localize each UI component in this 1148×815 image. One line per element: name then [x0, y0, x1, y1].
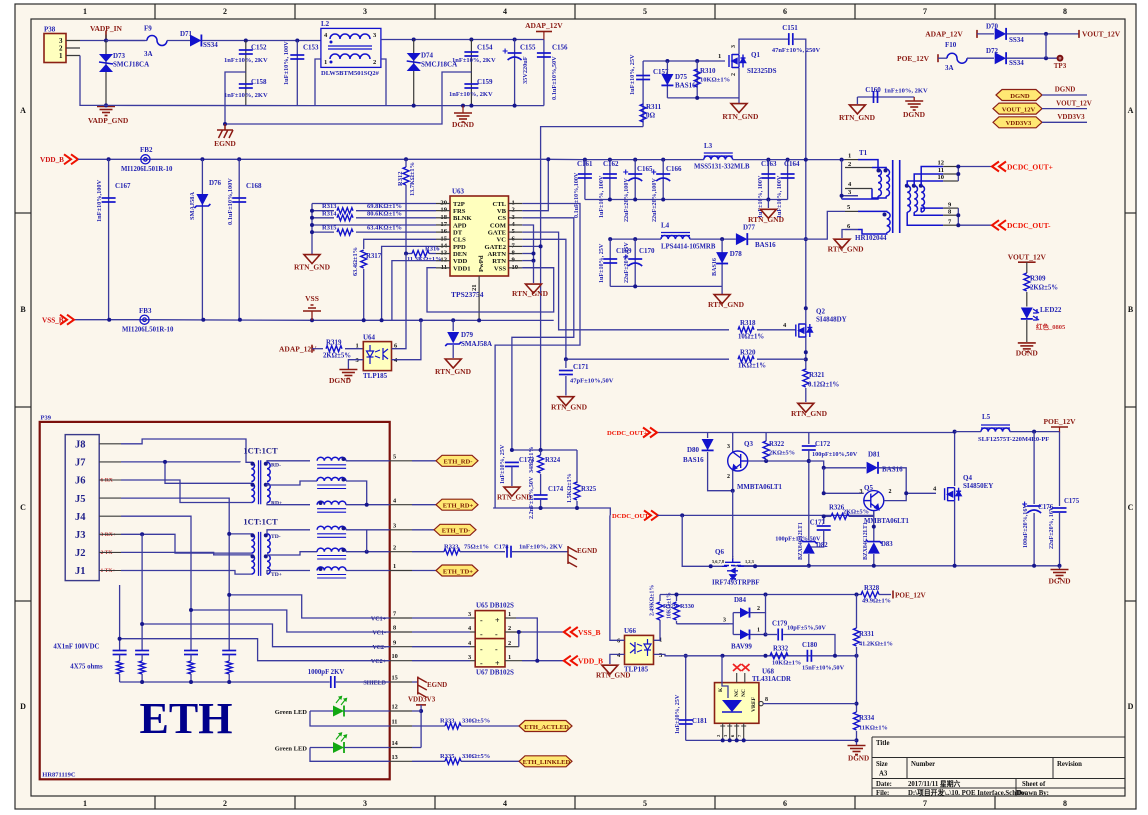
ground RTN_GND C173 [504, 487, 520, 496]
svg-text:FB2: FB2 [140, 146, 153, 154]
svg-text:D70: D70 [986, 23, 999, 31]
svg-text:+: + [495, 659, 500, 668]
svg-text:1uF±10%, 25V: 1uF±10%, 25V [599, 243, 605, 283]
U64 internals [367, 345, 389, 364]
wire TD mid [267, 552, 317, 555]
wire column x119 down [119, 585, 121, 651]
IC U63 TPS23754 [450, 196, 509, 276]
svg-text:ETH: ETH [140, 694, 233, 743]
svg-text:C168: C168 [246, 182, 262, 190]
wire U66 pin3 mid rail [654, 654, 857, 655]
wire R330 to D84 pin3 [677, 623, 730, 625]
ground DGND U64 [339, 370, 357, 379]
svg-text:VDD_B: VDD_B [40, 156, 64, 164]
sheet port VOUT_12V [993, 103, 1042, 114]
svg-text:MI1206L501R-10: MI1206L501R-10 [121, 166, 173, 173]
svg-text:0.1uF±10%,50V: 0.1uF±10%,50V [551, 56, 558, 100]
svg-text:R328: R328 [864, 585, 880, 592]
svg-text:C159: C159 [477, 78, 493, 86]
svg-text:3: 3 [731, 45, 737, 48]
wire LED1 loop [310, 711, 390, 726]
resistor R317 [361, 250, 367, 268]
svg-text:DGND: DGND [1010, 93, 1030, 100]
wire Q5 base loop [824, 468, 864, 494]
svg-text:R331: R331 [859, 631, 875, 638]
ground EGND shield pin [412, 681, 418, 683]
resistor R315 [312, 231, 334, 233]
svg-text:SS34: SS34 [1009, 36, 1024, 44]
svg-text:R319: R319 [326, 339, 342, 347]
svg-text:1: 1 [59, 52, 63, 60]
ground RTN_GND R321 [798, 403, 814, 412]
resistor R319 [312, 348, 323, 350]
svg-text:Q6: Q6 [715, 548, 724, 556]
svg-text:10: 10 [938, 174, 945, 181]
diode D70 [995, 28, 1006, 40]
svg-text:T1: T1 [859, 149, 868, 157]
svg-text:R314: R314 [322, 211, 337, 218]
diode D75 [666, 61, 668, 98]
svg-text:U68: U68 [762, 668, 775, 676]
resistor R309 [1024, 273, 1030, 291]
wire VC2- [142, 624, 390, 647]
svg-text:10KΩ±1%: 10KΩ±1% [700, 77, 730, 84]
svg-text:3: 3 [363, 799, 367, 808]
U65 left stubs [470, 618, 475, 661]
svg-text:C152: C152 [251, 44, 267, 52]
svg-text:C158: C158 [251, 78, 267, 86]
svg-text:6: 6 [783, 799, 787, 808]
wire U65 pin1 to VDD_B [516, 618, 537, 661]
svg-text:1: 1 [83, 799, 87, 808]
ground DGND bottom right [856, 740, 858, 745]
wire P38 pin1 to gnd rail [80, 56, 106, 106]
svg-text:C177: C177 [810, 520, 826, 527]
wire COM down [522, 225, 533, 261]
U68 internals [718, 687, 757, 712]
capacitor C163 [767, 160, 769, 200]
svg-text:1,2,3: 1,2,3 [745, 559, 755, 564]
resistor R335 [412, 760, 445, 762]
wire RTN [522, 260, 533, 262]
svg-text:2: 2 [889, 489, 892, 495]
svg-text:10Ω±1%: 10Ω±1% [738, 334, 764, 341]
wire VDD3V3 column [420, 705, 422, 748]
svg-text:J6: J6 [75, 476, 86, 487]
svg-text:MMBTA06LT1: MMBTA06LT1 [737, 484, 783, 491]
svg-text:1: 1 [508, 611, 511, 618]
wire column x229 down [228, 534, 230, 651]
svg-text:R323: R323 [444, 544, 459, 551]
svg-text:3: 3 [723, 617, 726, 623]
capacitor C173 [505, 462, 519, 466]
wire L2 pin1 to bottom rail [315, 59, 321, 106]
wire EGND net mid caps [225, 72, 246, 124]
resistor R313 [312, 210, 334, 212]
svg-text:VOUT_12V: VOUT_12V [1008, 253, 1047, 262]
svg-text:ETH_TD-: ETH_TD- [442, 528, 471, 535]
svg-text:35V220uF: 35V220uF [522, 56, 529, 84]
polarized capacitor C165 [634, 160, 636, 200]
wire Q5 emitter down [873, 511, 875, 540]
svg-text:-: - [480, 659, 483, 668]
svg-text:1nF±10%, 2KV: 1nF±10%, 2KV [224, 57, 268, 64]
svg-text:7: 7 [923, 799, 927, 808]
svg-text:0.1uF±10%,100V: 0.1uF±10%,100V [227, 178, 234, 225]
power port VOUT_12V right [1078, 30, 1080, 38]
port ETH_LINKLED [519, 756, 572, 767]
svg-text:1nF±10%, 2KV: 1nF±10%, 2KV [519, 544, 563, 551]
zener diode D76 [201, 159, 203, 319]
wire U64 pin3 to DGND [348, 360, 363, 369]
svg-text:4: 4 [503, 7, 507, 16]
svg-text:VDD3V3: VDD3V3 [1006, 120, 1032, 127]
svg-text:BZX84C12LT1: BZX84C12LT1 [863, 522, 869, 560]
svg-text:C153: C153 [303, 44, 319, 52]
svg-text:B: B [20, 305, 26, 314]
svg-text:C162: C162 [603, 160, 619, 168]
wire J7 to RD- mid [121, 461, 240, 463]
svg-text:1uF±10%, 100V: 1uF±10%, 100V [283, 41, 290, 85]
wire VDD_B rail [78, 158, 548, 160]
svg-text:PPD: PPD [453, 244, 466, 251]
svg-text:R335: R335 [440, 753, 455, 760]
wire C172 down to D82 [808, 450, 810, 540]
svg-text:D71: D71 [180, 30, 193, 38]
wire DCDC_OUT- rail [657, 514, 874, 516]
wire Q2 source chain [805, 337, 807, 370]
svg-text:R311: R311 [646, 103, 662, 111]
svg-text:3: 3 [860, 489, 863, 495]
svg-text:14: 14 [392, 740, 399, 747]
ETH right pin stubs rows 5 4 3 2 1 [390, 461, 412, 571]
svg-text:Number: Number [911, 761, 935, 768]
svg-text:Sheet of: Sheet of [1022, 781, 1046, 788]
wire R330 bottom [676, 621, 678, 624]
svg-text:RTN: RTN [492, 258, 506, 265]
wire pin7 to U65 [412, 617, 470, 619]
wire C151 to Q2 drain long vertical [794, 39, 806, 308]
common mode choke L2 [321, 28, 381, 67]
svg-text:1: 1 [718, 53, 721, 60]
svg-text:2 TX-: 2 TX- [101, 550, 115, 556]
svg-text:D81: D81 [868, 451, 881, 459]
wire U67 pin2 up [518, 632, 520, 647]
capacitor C169 [609, 239, 611, 286]
svg-text:Title: Title [876, 740, 889, 747]
wire U66 pin1 to R329 [654, 620, 661, 640]
svg-text:VDD3V3: VDD3V3 [408, 696, 436, 704]
connector P38 [44, 34, 66, 63]
svg-text:C156: C156 [552, 44, 568, 52]
svg-text:SS34: SS34 [1009, 59, 1024, 67]
wire R323 to C178 [460, 551, 505, 553]
wire ADAP to D70 [977, 33, 994, 35]
wire J6 to RD+ [121, 480, 251, 503]
svg-text:FRS: FRS [453, 208, 466, 215]
svg-text:RTN_GND: RTN_GND [791, 409, 828, 418]
svg-text:15: 15 [392, 675, 398, 682]
polarized capacitor C155 [514, 40, 516, 106]
T1 pin stubs left [845, 160, 872, 230]
svg-text:8: 8 [1063, 799, 1067, 808]
wire L3 to T1 [690, 159, 704, 161]
svg-text:BAS16: BAS16 [683, 456, 704, 464]
port ETH_RD- [436, 455, 478, 466]
svg-text:D: D [20, 702, 26, 711]
wire J4 down column [121, 516, 191, 650]
svg-text:LED22: LED22 [1040, 306, 1062, 314]
svg-text:7: 7 [923, 7, 927, 16]
svg-text:0.1uF±10%,100V: 0.1uF±10%,100V [574, 172, 580, 218]
svg-text:GATE2: GATE2 [485, 244, 507, 251]
wire feedback top rail [660, 594, 862, 596]
svg-text:R322: R322 [769, 441, 785, 448]
svg-text:63.4Ω±1%: 63.4Ω±1% [352, 247, 359, 276]
svg-text:R316: R316 [425, 246, 440, 253]
MOSFET Q4 SI4850EY [945, 487, 962, 501]
capacitor C178 [507, 546, 511, 558]
svg-text:A: A [20, 106, 26, 115]
svg-text:HR871119C: HR871119C [42, 772, 76, 779]
wire D72 to TP3 [1007, 57, 1057, 59]
svg-text:3 RX+: 3 RX+ [101, 532, 116, 538]
wire secondary bottom to DCDC_OUT- [958, 208, 992, 225]
svg-text:R334: R334 [859, 715, 875, 722]
svg-text:2: 2 [508, 625, 511, 632]
svg-text:1nF±10%, 2KV: 1nF±10%, 2KV [224, 92, 268, 99]
svg-text:ETH_RD-: ETH_RD- [444, 459, 473, 466]
ETH transformer TD-/TD+ [251, 534, 254, 553]
wire C177 to D82 node [809, 530, 824, 547]
svg-text:11: 11 [392, 719, 398, 726]
svg-text:15nF±10%,50V: 15nF±10%,50V [802, 665, 845, 672]
svg-text:1.5KΩ±1%: 1.5KΩ±1% [567, 473, 573, 503]
wire APD pin17 [312, 224, 436, 226]
resistor R329 [657, 602, 663, 620]
resistor 75ohm column [139, 661, 145, 674]
port DCDC_OUT- right [992, 220, 1006, 230]
resistor R332 [770, 653, 788, 659]
svg-text:J5: J5 [75, 494, 86, 505]
T1 right pin stubs [943, 167, 958, 226]
resistor R323 series TD [412, 551, 444, 553]
svg-text:File:: File: [876, 790, 889, 797]
capacitor C152 [245, 41, 247, 73]
TVS diode D74 [413, 40, 415, 106]
svg-text:1CT:1CT: 1CT:1CT [243, 517, 278, 527]
ground RTN_GND L4 row [721, 286, 723, 294]
svg-text:L2: L2 [321, 20, 330, 28]
T1 primary winding lower [858, 210, 887, 213]
svg-text:VREF: VREF [751, 696, 757, 712]
svg-text:EGND: EGND [427, 681, 447, 689]
svg-text:R313: R313 [322, 203, 337, 210]
svg-text:DCDC_OUT-: DCDC_OUT- [1007, 221, 1051, 230]
svg-text:DCDC_OUT+: DCDC_OUT+ [1007, 163, 1053, 172]
wire D83 down [873, 554, 875, 566]
svg-text:2KΩ±5%: 2KΩ±5% [843, 509, 869, 516]
svg-text:12: 12 [938, 160, 945, 167]
MOSFET Q6 IRF7493TRPBF [722, 558, 744, 579]
svg-text:VOUT_12V: VOUT_12V [1082, 30, 1121, 39]
wire VSS bus [74, 319, 554, 322]
svg-text:4X75 ohms: 4X75 ohms [70, 664, 103, 671]
svg-text:11: 11 [938, 167, 944, 174]
svg-text:VDD3V3: VDD3V3 [1057, 113, 1085, 121]
wire J1 to TD+ [121, 571, 251, 575]
svg-text:R312: R312 [397, 172, 404, 186]
port VSS_B mid [564, 627, 578, 637]
wire J7 branch to RD- bot [165, 462, 251, 483]
svg-text:RTN_GND: RTN_GND [828, 245, 865, 254]
capacitor C177 [823, 516, 825, 524]
wire L2 pin2 down [381, 59, 386, 106]
ETH choke RD- [317, 457, 346, 461]
T1 core [893, 160, 900, 233]
svg-text:APD: APD [453, 222, 467, 229]
wire PPD down [382, 246, 436, 320]
wire VC1+ [229, 595, 390, 618]
svg-text:2: 2 [223, 7, 227, 16]
svg-text:VC2+: VC2+ [371, 659, 387, 665]
svg-text:POE_12V: POE_12V [1043, 417, 1076, 426]
svg-text:5: 5 [643, 7, 647, 16]
svg-text:C166: C166 [666, 165, 682, 173]
wire U66 pin6 to DCDC_OUT- [610, 515, 625, 640]
svg-text:ETH_TD+: ETH_TD+ [443, 568, 473, 575]
wire shield rail [120, 681, 330, 683]
svg-text:21: 21 [471, 284, 478, 291]
wire R311 to GATE2 net [541, 127, 644, 450]
LED LED22 [1021, 308, 1033, 319]
svg-text:4X1nF 100VDC: 4X1nF 100VDC [53, 644, 99, 651]
wire Q3 emitter to Q6 [732, 491, 734, 557]
zener D82 [801, 540, 817, 554]
svg-text:13: 13 [392, 754, 398, 761]
port DCDC_OUT+ right [992, 162, 1006, 172]
svg-text:C167: C167 [115, 182, 131, 190]
svg-text:P38: P38 [44, 26, 56, 34]
svg-text:TLP185: TLP185 [363, 372, 388, 380]
svg-text:C180: C180 [802, 642, 818, 649]
resistor 75ohm column [117, 661, 123, 674]
wire J2 to TD mid [121, 552, 251, 555]
wire VC1- [191, 610, 390, 632]
wire T2P pin20 [312, 203, 436, 205]
svg-text:VC1-: VC1- [372, 630, 386, 636]
opto U66 TLP185 [625, 635, 654, 664]
svg-text:1: 1 [757, 628, 760, 634]
svg-text:3: 3 [468, 654, 471, 661]
ground EGND top [217, 124, 233, 138]
wire VDD pin12 [392, 261, 436, 321]
svg-text:Date:: Date: [876, 781, 892, 788]
svg-text:R325: R325 [581, 486, 597, 493]
svg-text:TL431ACDR: TL431ACDR [752, 676, 791, 683]
bridge U65 U67 DB102S [475, 611, 505, 667]
ground RTN_GND C171 [558, 397, 574, 406]
svg-text:6: 6 [783, 7, 787, 16]
svg-text:F9: F9 [144, 25, 152, 33]
resistor R318 [738, 327, 754, 333]
diode D72 [995, 52, 1006, 64]
svg-text:10KΩ±1%: 10KΩ±1% [667, 592, 673, 619]
svg-text:3: 3 [363, 7, 367, 16]
svg-text:DEN: DEN [453, 251, 467, 258]
ground DGND LED22 [1018, 343, 1036, 352]
svg-text:F10: F10 [945, 41, 957, 49]
resistor R330 [674, 602, 680, 620]
svg-text:2: 2 [223, 799, 227, 808]
wire Q6 source left [682, 515, 722, 566]
ETH choke TD group [317, 526, 346, 530]
svg-text:A3: A3 [879, 771, 888, 778]
svg-text:1uF±10%, 25V: 1uF±10%, 25V [629, 54, 636, 95]
wire ARTN [522, 253, 533, 255]
svg-text:POE_12V: POE_12V [897, 54, 930, 63]
svg-text:R321: R321 [809, 371, 825, 379]
svg-text:DCDC_OUT+: DCDC_OUT+ [607, 430, 648, 437]
wire pin12 link [412, 710, 421, 712]
svg-text:T2P: T2P [453, 201, 465, 208]
svg-text:0Ω: 0Ω [646, 112, 656, 120]
svg-text:RTN_GND: RTN_GND [722, 112, 759, 121]
svg-text:J2: J2 [75, 548, 86, 559]
svg-text:VOUT_12V: VOUT_12V [1002, 106, 1036, 113]
svg-text:红色_0805: 红色_0805 [1036, 322, 1066, 331]
port DCDC_OUT+ use [643, 428, 657, 438]
svg-text:Drawn By:: Drawn By: [1017, 790, 1049, 797]
sheet port VDD3V3 [993, 117, 1042, 128]
svg-text:2: 2 [727, 474, 730, 480]
svg-text:ARTN: ARTN [488, 251, 507, 258]
svg-text:VSS_B: VSS_B [578, 628, 601, 637]
wire joining diode outputs [1045, 34, 1047, 58]
svg-text:C171: C171 [573, 363, 589, 371]
resistor 75ohm column [188, 661, 194, 674]
svg-text:D76: D76 [209, 179, 222, 187]
wire U64 pin4 right [392, 320, 421, 359]
wire LED1 anode [310, 710, 333, 712]
svg-text:TP3: TP3 [1054, 62, 1067, 70]
U68 pin8 wire [759, 701, 763, 705]
svg-text:C: C [1128, 503, 1134, 512]
U66 internals [630, 639, 651, 656]
svg-text:22uF±20%, 16V: 22uF±20%, 16V [1049, 506, 1055, 549]
resistor R321 [803, 369, 809, 387]
wire choke join vertical [366, 530, 368, 552]
svg-text:VC: VC [496, 237, 506, 244]
wire VB to VDD rail [522, 159, 548, 210]
svg-text:C170: C170 [639, 247, 655, 255]
svg-text:BAV99: BAV99 [731, 643, 752, 651]
svg-text:1nF±10%, 2KV: 1nF±10%, 2KV [884, 88, 928, 95]
svg-text:DGND: DGND [1016, 349, 1039, 358]
wire VSS_B port link [522, 631, 563, 633]
svg-text:3: 3 [468, 611, 471, 618]
wire RD mid [267, 481, 317, 485]
svg-text:SMAJ58A: SMAJ58A [461, 340, 492, 348]
wire GATE to R318 [522, 232, 729, 330]
svg-text:D82: D82 [816, 542, 828, 549]
zener D83 [873, 540, 875, 541]
svg-text:GATE: GATE [488, 230, 507, 237]
svg-text:RTN_GND: RTN_GND [497, 494, 532, 502]
svg-text:49.9Ω±1%: 49.9Ω±1% [862, 598, 891, 605]
svg-text:1: 1 [356, 343, 359, 350]
capacitor C175 [1059, 432, 1061, 506]
